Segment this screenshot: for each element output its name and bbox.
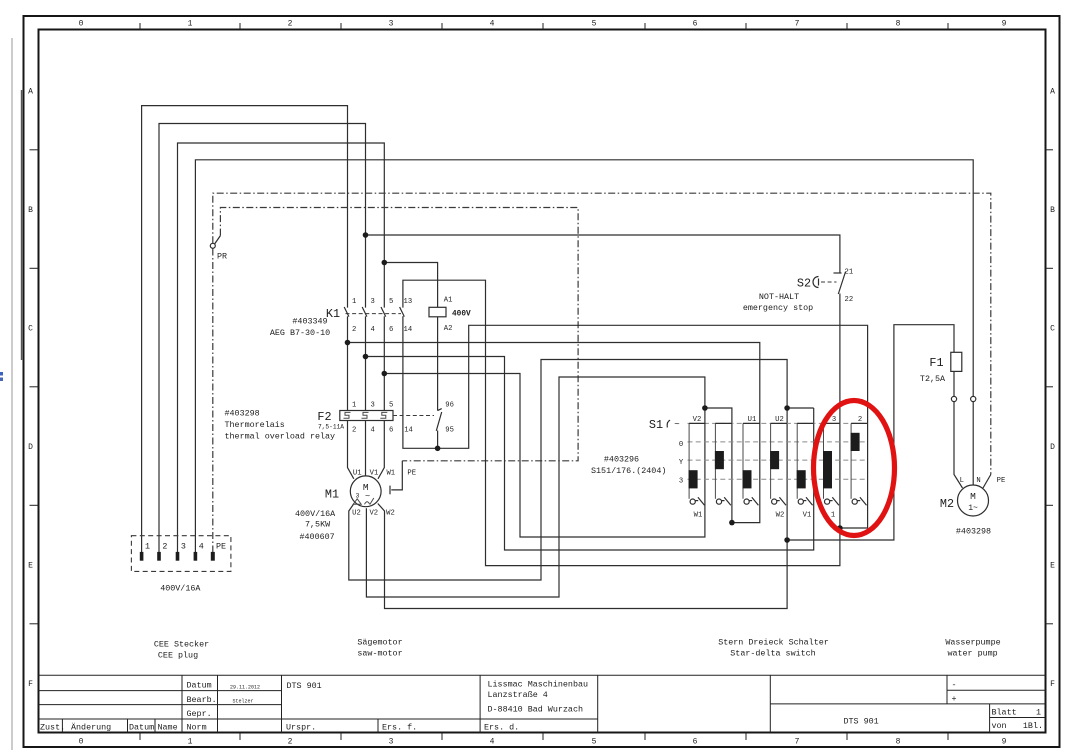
svg-text:6: 6 — [693, 20, 698, 29]
svg-text:W2: W2 — [776, 512, 785, 520]
wire L1 CEE pin1 to K1 contact 1 — [142, 106, 348, 553]
F2 trip contact blade 95-96 — [436, 412, 441, 431]
svg-text:Ers. d.: Ers. d. — [484, 723, 519, 733]
red highlight ellipse annotation — [814, 401, 895, 536]
svg-text:M1: M1 — [325, 488, 339, 502]
svg-text:CEE plug: CEE plug — [158, 651, 198, 661]
junction L2 S2 feed — [363, 232, 369, 238]
svg-text:7,5-11A: 7,5-11A — [318, 424, 344, 431]
svg-text:2: 2 — [162, 542, 167, 552]
svg-text:PE: PE — [216, 542, 226, 552]
svg-text:NOT-HALT: NOT-HALT — [759, 292, 799, 302]
M1 circle — [350, 476, 381, 507]
contactor K1 — [270, 298, 412, 338]
svg-text:Bearb.: Bearb. — [187, 695, 217, 705]
S1 dashed row 0 — [688, 441, 867, 443]
F2 linkage dashed to trip contact — [393, 415, 434, 417]
column ticks bottom — [140, 733, 948, 740]
svg-text:7: 7 — [795, 738, 800, 747]
svg-text:U2: U2 — [352, 510, 361, 518]
CEE pin 1 bar — [140, 552, 144, 561]
svg-text:W1: W1 — [694, 512, 703, 520]
svg-text:9: 9 — [1002, 20, 1007, 29]
svg-text:2: 2 — [352, 427, 356, 435]
wire L terminal to M2 — [954, 402, 963, 488]
wire L1 K1-2 to F2-1 — [347, 316, 349, 410]
svg-text:#400607: #400607 — [300, 532, 335, 542]
terminal circle L — [951, 396, 956, 401]
svg-text:#403349: #403349 — [292, 317, 327, 327]
junction column2/column3 outputs — [729, 520, 735, 526]
svg-text:#403298: #403298 — [956, 527, 991, 537]
svg-text:13: 13 — [404, 298, 413, 306]
svg-text:F1: F1 — [929, 356, 943, 370]
svg-text:PE: PE — [997, 477, 1006, 485]
svg-text:Datum: Datum — [129, 723, 154, 733]
svg-text:7,5KW: 7,5KW — [305, 520, 331, 530]
svg-text:U1: U1 — [353, 470, 362, 478]
svg-text:Zust.: Zust. — [40, 723, 65, 733]
wire PE dash-dot PR to pump M2 PE — [213, 193, 991, 474]
svg-text:Änderung: Änderung — [71, 723, 111, 733]
svg-text:3: 3 — [679, 478, 683, 486]
F2 pin numbers bottom — [352, 427, 413, 435]
S1 column 3 box U1 — [743, 416, 760, 505]
title block texts — [40, 680, 1043, 733]
S2 mushroom actuator — [813, 277, 818, 288]
svg-text:1~: 1~ — [968, 504, 978, 513]
svg-text:CEE Stecker: CEE Stecker — [154, 640, 209, 650]
svg-text:-: - — [952, 680, 957, 690]
M1 PE terminal tick — [389, 486, 391, 495]
svg-text:A: A — [28, 88, 33, 97]
S1 column 2 box — [715, 423, 732, 505]
svg-text:V1: V1 — [803, 512, 812, 520]
svg-text:S2: S2 — [797, 277, 811, 291]
svg-text:D: D — [1050, 443, 1055, 452]
wire L2 CEE pin2 to K1 contact 3 — [159, 124, 366, 553]
svg-text:9: 9 — [1002, 738, 1007, 747]
svg-text:W1: W1 — [386, 470, 395, 478]
svg-text:22: 22 — [845, 296, 854, 304]
svg-text:thermal overload relay: thermal overload relay — [225, 432, 336, 442]
svg-text:~: ~ — [365, 492, 370, 502]
F2 heater element pole 3 — [380, 412, 387, 418]
svg-text:M: M — [970, 491, 976, 502]
svg-text:DTS 901: DTS 901 — [844, 717, 879, 727]
svg-text:95: 95 — [445, 427, 454, 435]
CEE PE pin bar — [211, 552, 215, 561]
S1 dashed row delta — [688, 478, 867, 480]
wire N CEE pin4 to terminal and pump M2 — [195, 160, 973, 553]
svg-text:5: 5 — [592, 738, 597, 747]
svg-text:Y: Y — [679, 459, 684, 467]
svg-text:4: 4 — [371, 427, 375, 435]
svg-text:C: C — [1050, 325, 1055, 334]
svg-text:1: 1 — [188, 738, 193, 747]
wire PE2 dash-dot branch to saw motor PE — [220, 208, 578, 461]
wire branch column4 feed to column 5 — [787, 407, 814, 409]
title block row lines — [39, 690, 282, 692]
wire motor U2 lead through S1 column 4 to motor W2 — [349, 360, 787, 609]
scan artifact colored dots — [0, 372, 3, 376]
CEE pin 2 bar — [157, 552, 161, 561]
svg-text:A2: A2 — [444, 325, 453, 333]
svg-text:29.11.2012: 29.11.2012 — [230, 685, 260, 691]
thermal overload relay F2 — [225, 402, 454, 442]
svg-text:PR: PR — [217, 252, 227, 262]
svg-text:M2: M2 — [940, 497, 954, 511]
S1 column 1 box V2/W1 — [689, 416, 706, 520]
svg-text:6: 6 — [389, 427, 393, 435]
svg-text:Wasserpumpe: Wasserpumpe — [945, 638, 1000, 648]
svg-text:von: von — [992, 721, 1007, 731]
column numbers bottom — [79, 738, 1007, 747]
F2 box — [340, 411, 393, 421]
S1 actuator glyph — [667, 420, 670, 427]
fuse F1 — [920, 352, 962, 384]
K1 blade pole 5-6 — [381, 307, 386, 317]
svg-text:Ers. f.: Ers. f. — [382, 723, 417, 733]
svg-text:AEG B7-30-10: AEG B7-30-10 — [270, 328, 330, 338]
K1 blade pole 3-4 — [362, 307, 367, 317]
F2 heater element pole 2 — [362, 412, 369, 418]
S1 dashed row Y — [688, 459, 867, 461]
svg-text:4: 4 — [490, 738, 495, 747]
svg-text:+: + — [952, 694, 957, 704]
svg-text:F2: F2 — [317, 410, 331, 424]
svg-text:S1: S1 — [649, 418, 663, 432]
svg-text:1: 1 — [831, 512, 835, 520]
svg-text:4: 4 — [490, 20, 495, 29]
column ticks top — [140, 23, 948, 30]
svg-text:Stern Dreieck Schalter: Stern Dreieck Schalter — [718, 638, 829, 648]
svg-text:4: 4 — [199, 542, 204, 552]
svg-text:3: 3 — [389, 738, 394, 747]
svg-text:8: 8 — [896, 20, 901, 29]
svg-text:21: 21 — [845, 269, 854, 277]
PR switch PE interlock — [210, 236, 227, 262]
svg-text:5: 5 — [389, 402, 393, 410]
CEE pin 3 bar — [176, 552, 180, 561]
wire F1 feed loop from column4 wire to fuse F1 and M2 — [787, 325, 954, 540]
M1 delta symbol — [353, 499, 361, 504]
svg-text:1: 1 — [188, 20, 193, 29]
K1 pin numbers top — [352, 298, 412, 306]
wire PE2 solid drop to M1 PE terminal — [391, 461, 402, 490]
svg-text:2: 2 — [858, 416, 862, 424]
svg-text:Star-delta switch: Star-delta switch — [730, 649, 815, 659]
PR circle — [210, 243, 215, 248]
svg-text:S151/176.(2404): S151/176.(2404) — [591, 466, 666, 476]
CEE pin labels — [145, 542, 226, 552]
svg-text:5: 5 — [389, 298, 393, 306]
wire PE dash-dot CEE PE pin up to PR switch — [212, 248, 214, 552]
S1 column 6 box 3/1 — [823, 416, 840, 520]
svg-text:V1: V1 — [370, 470, 379, 478]
column numbers top — [79, 20, 1007, 29]
wire L1 F2-2 to motor U1 — [348, 421, 354, 479]
junction F1 loop tap — [784, 537, 790, 543]
wire coil A2 down to F2 contact 96 — [437, 317, 439, 411]
svg-text:2: 2 — [352, 326, 356, 334]
terminal circle N — [971, 396, 976, 401]
svg-text:B: B — [28, 206, 33, 215]
svg-text:0: 0 — [79, 738, 84, 747]
svg-text:400V/16A: 400V/16A — [295, 509, 336, 519]
junction column6/column7 outputs — [837, 525, 843, 531]
TITLEBLOCK — [39, 675, 1046, 732]
right box internal lines — [770, 703, 1045, 705]
svg-text:4: 4 — [371, 326, 375, 334]
wire motor V2 lead to S1 column 1 and bus3 L3 tap — [366, 374, 705, 598]
svg-text:Lissmac Maschinenbau: Lissmac Maschinenbau — [488, 680, 589, 690]
svg-text:0: 0 — [79, 20, 84, 29]
coil K1 A1/A2 400V — [429, 297, 471, 334]
junction F2-95 / K1-14 — [435, 446, 441, 452]
svg-text:U1: U1 — [748, 416, 757, 424]
svg-text:Thermorelais: Thermorelais — [225, 420, 285, 430]
F2 trip contact tick — [438, 409, 442, 411]
wire coil feed from L3 tap to K1 coil A1 — [384, 263, 437, 308]
svg-text:F: F — [28, 680, 33, 689]
svg-text:L: L — [960, 477, 964, 485]
K1 pin numbers bottom — [352, 326, 412, 334]
svg-text:3: 3 — [389, 20, 394, 29]
title block column lines — [61, 719, 63, 733]
svg-text:Stelzer: Stelzer — [232, 699, 253, 705]
S1 column 5 box V1 — [797, 423, 814, 519]
svg-text:U2: U2 — [775, 416, 784, 424]
wire N below terminal into M2 — [972, 402, 974, 485]
svg-text:14: 14 — [404, 427, 413, 435]
svg-text:Datum: Datum — [187, 681, 212, 691]
svg-text:V2: V2 — [369, 510, 378, 518]
row letters right — [1050, 88, 1055, 690]
PR blade — [215, 236, 221, 244]
CEE plug X1 — [131, 536, 231, 594]
junction L3 coil feed — [382, 260, 388, 266]
svg-text:400V/16A: 400V/16A — [160, 584, 201, 594]
svg-text:PE: PE — [407, 470, 416, 478]
svg-text:3: 3 — [371, 402, 375, 410]
CEE dashed box — [131, 536, 231, 572]
svg-text:2: 2 — [288, 738, 293, 747]
svg-text:2: 2 — [288, 20, 293, 29]
svg-text:F: F — [1050, 680, 1055, 689]
row ticks right — [1046, 150, 1054, 624]
S1 column 7 box 2 — [851, 416, 868, 505]
svg-text:96: 96 — [445, 402, 454, 410]
M1 winding squiggle — [365, 498, 374, 505]
svg-text:Gepr.: Gepr. — [187, 709, 212, 719]
svg-text:#403296: #403296 — [604, 455, 639, 465]
svg-text:saw-motor: saw-motor — [357, 649, 402, 659]
svg-text:T2,5A: T2,5A — [920, 374, 946, 384]
F2 pin numbers top — [352, 402, 393, 410]
svg-text:K1: K1 — [326, 307, 340, 321]
K1 blade pole 1-2 — [344, 307, 349, 317]
svg-text:6: 6 — [693, 738, 698, 747]
svg-text:D: D — [28, 443, 33, 452]
F1 fuse body — [951, 352, 962, 371]
junction L1 bus1 — [345, 340, 351, 346]
scan artifact line left margin — [11, 38, 13, 750]
wire L2 F2-4 to motor V1 — [365, 421, 367, 477]
row ticks left — [30, 150, 39, 624]
CEE pin 4 bar — [194, 552, 198, 561]
svg-text:C: C — [28, 325, 33, 334]
F2 heater element pole 1 — [344, 412, 351, 418]
svg-text:Blatt: Blatt — [992, 708, 1017, 718]
svg-text:A: A — [1050, 88, 1055, 97]
svg-text:#403298: #403298 — [225, 409, 260, 419]
wire K1-14 to F2-95 loop and up to S1 column 7 feed — [403, 316, 868, 528]
wire branch column1 feed to column 2 — [705, 408, 732, 523]
S2 contact blade 21-22 — [838, 272, 845, 295]
svg-text:1: 1 — [145, 542, 150, 552]
svg-text:14: 14 — [404, 326, 413, 334]
M2 circle — [958, 485, 989, 516]
wire F1 fuse bottom to terminal — [953, 371, 955, 396]
star-delta switch S1 — [591, 416, 868, 520]
svg-text:B: B — [1050, 206, 1055, 215]
wire L3 CEE pin3 to K1 contact 5 — [178, 143, 385, 553]
junction column4/column5 branch — [784, 405, 790, 411]
wire L3 K1-6 to F2-5 — [383, 316, 385, 410]
svg-text:water pump: water pump — [947, 649, 997, 659]
S2 contact stop bar — [834, 272, 842, 274]
junction L2 bus2 — [363, 354, 369, 360]
wire bus1 L1 tap to S1 column 3 — [348, 343, 760, 523]
junction column1/column2 branch — [702, 405, 708, 411]
K1 mechanical linkage — [346, 313, 402, 315]
S1 dashed row top — [688, 422, 867, 424]
svg-text:1: 1 — [352, 298, 356, 306]
svg-text:Urspr.: Urspr. — [286, 723, 316, 733]
svg-text:5: 5 — [592, 20, 597, 29]
title block outline — [39, 674, 1046, 676]
svg-text:~: ~ — [674, 420, 679, 430]
svg-text:0: 0 — [679, 441, 683, 449]
svg-text:6: 6 — [389, 326, 393, 334]
wire S2 feed from L2 tap — [366, 235, 840, 273]
svg-text:E: E — [28, 562, 33, 571]
wire bus2 L2 tap to S1 column 5 — [366, 357, 814, 551]
wire L3 F2-6 to motor W1 — [378, 421, 384, 479]
svg-text:E: E — [1050, 562, 1055, 571]
S1 column 4 box U2/W2 — [770, 416, 787, 520]
svg-text:Lanzstraße 4: Lanzstraße 4 — [488, 690, 548, 700]
wire F2-95 to junction — [437, 431, 439, 449]
svg-text:Sägemotor: Sägemotor — [357, 638, 402, 648]
junction L3 bus3 — [382, 371, 388, 377]
svg-text:7: 7 — [795, 20, 800, 29]
svg-text:Name: Name — [158, 723, 178, 733]
S2 linkage — [821, 281, 837, 283]
row letters left — [28, 88, 33, 690]
wire PE solid lead-in to M2 — [983, 475, 991, 489]
water pump M2 — [940, 477, 1005, 537]
svg-text:1: 1 — [352, 402, 356, 410]
svg-text:3: 3 — [181, 542, 186, 552]
wire L2 K1-4 to F2-3 — [365, 316, 367, 410]
svg-text:D-88410 Bad Wurzach: D-88410 Bad Wurzach — [488, 705, 584, 715]
svg-text:A1: A1 — [444, 297, 453, 305]
svg-text:3: 3 — [832, 416, 836, 424]
K1 auxiliary blade 13-14 — [400, 307, 405, 317]
svg-text:8: 8 — [896, 738, 901, 747]
svg-text:Norm: Norm — [187, 723, 207, 733]
emergency stop S2 — [743, 269, 853, 314]
svg-text:1: 1 — [1036, 708, 1041, 718]
svg-text:400V: 400V — [452, 311, 471, 319]
svg-text:W2: W2 — [386, 510, 395, 518]
svg-text:1Bl.: 1Bl. — [1023, 721, 1043, 731]
svg-text:DTS 901: DTS 901 — [287, 681, 322, 691]
saw motor M1 — [295, 470, 416, 543]
svg-text:emergency stop: emergency stop — [743, 303, 813, 313]
wire S2-22 down through S1 column 6 to K1-13 loop — [403, 280, 840, 565]
svg-text:N: N — [976, 477, 980, 485]
svg-text:V2: V2 — [693, 416, 702, 424]
svg-text:3: 3 — [371, 298, 375, 306]
ANNOT — [154, 401, 1001, 661]
junction dots — [345, 232, 843, 543]
